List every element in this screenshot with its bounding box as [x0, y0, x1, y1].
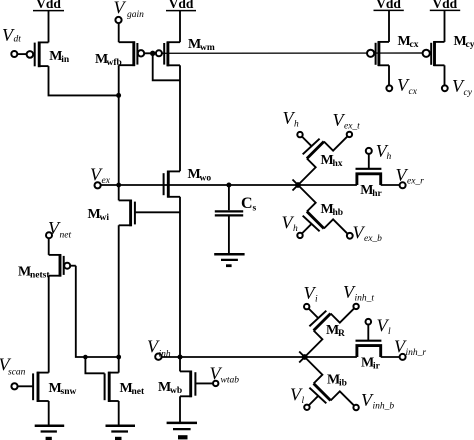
node V_wtab: [210, 363, 240, 386]
wire V_ex horizontal line: [101, 184, 357, 186]
node V_h top gate: [283, 108, 303, 137]
transistor M_wi: [88, 200, 181, 227]
node V_net: [46, 218, 71, 241]
svg-text:h: h: [294, 120, 299, 130]
wire V_gain to M_wfb source: [118, 23, 120, 42]
svg-text:Vdd: Vdd: [376, 0, 401, 11]
node V_inh_r: [394, 337, 426, 360]
svg-text:cx: cx: [409, 87, 418, 97]
wire M_wfb drain down to V_ex node: [118, 65, 120, 200]
node V_cx: [386, 65, 417, 97]
node net junction dot 2: [116, 355, 121, 360]
node V_dt: [2, 25, 21, 57]
svg-text:snw: snw: [61, 387, 77, 397]
transistor M_cy: [423, 34, 474, 66]
wire M_wm drain down to M_wo: [179, 65, 181, 171]
svg-text:inh_r: inh_r: [406, 348, 427, 358]
svg-text:h: h: [387, 152, 392, 162]
svg-text:wm: wm: [200, 43, 215, 53]
node V_inh_b: [353, 390, 394, 412]
svg-text:cx: cx: [410, 40, 419, 50]
transistor M_wfb: [95, 41, 153, 68]
capacitor C_s: [215, 183, 257, 254]
wire M_snw source to ground: [48, 401, 50, 426]
svg-text:net: net: [132, 387, 146, 397]
svg-text:ir: ir: [373, 361, 381, 371]
wire Vdd2 to M_wm source: [179, 11, 181, 43]
ground under M_snw: [35, 426, 64, 440]
transistor M_wm: [156, 37, 215, 67]
node V_ex_t: [333, 110, 361, 137]
transistor M_ib diagonal bottom: [299, 352, 354, 406]
wire long gate line to current mirrors: [153, 52, 424, 54]
transistor M_netst: [18, 254, 76, 280]
transistor M_R diagonal top: [299, 308, 354, 362]
node net junction dot 1: [83, 355, 88, 360]
svg-text:cy: cy: [466, 40, 474, 50]
svg-text:i: i: [315, 294, 318, 304]
svg-text:hb: hb: [333, 208, 344, 218]
svg-text:h: h: [293, 224, 298, 234]
node V_scan: [0, 354, 26, 389]
svg-text:cy: cy: [464, 88, 473, 98]
svg-text:in: in: [61, 55, 70, 65]
node junction V_inh / M_wo source: [178, 355, 183, 360]
transistor M_net: [105, 372, 145, 402]
Vdd rail 1: [33, 0, 64, 11]
svg-text:scan: scan: [8, 367, 26, 377]
node V_inh_t: [343, 282, 374, 309]
wire Vdd4 to M_cy source: [444, 10, 446, 42]
transistor M_hr right: [356, 148, 400, 199]
wire Vdd1 to M_in source: [48, 11, 50, 43]
svg-text:Vdd: Vdd: [36, 0, 61, 11]
svg-text:ex_r: ex_r: [407, 177, 424, 187]
svg-text:hr: hr: [372, 189, 382, 199]
svg-text:Vdd: Vdd: [169, 0, 194, 11]
svg-text:ex_t: ex_t: [344, 122, 360, 132]
svg-text:s: s: [253, 204, 257, 214]
node V_ex_b: [347, 223, 382, 245]
ground under M_net: [106, 426, 136, 440]
transistor M_ir right: [356, 319, 400, 371]
svg-text:l: l: [388, 327, 391, 337]
Vdd rail 2: [166, 0, 196, 11]
node junction M_in/M_wfb drains: [116, 93, 121, 98]
transistor M_hb diagonal bottom: [293, 180, 348, 234]
wire Vdd3 to M_cx source: [388, 10, 390, 42]
wire M_wb source to ground: [179, 396, 181, 422]
ground under M_wb: [167, 423, 197, 440]
wire M_wm gate-drain tie: [153, 53, 180, 80]
svg-text:wtab: wtab: [221, 375, 240, 385]
svg-text:wb: wb: [170, 386, 182, 396]
svg-text:Vdd: Vdd: [432, 0, 457, 11]
transistor M_wo: [164, 167, 212, 197]
svg-text:wi: wi: [100, 213, 110, 223]
svg-text:inh_t: inh_t: [355, 293, 375, 303]
transistor M_hx diagonal top: [293, 136, 348, 190]
node V_ex: [90, 165, 111, 189]
node junction V_ex / M_wfb drain: [116, 183, 121, 188]
Vdd rail 3: [374, 0, 404, 11]
node V_h bottom gate: [282, 213, 303, 238]
wire M_wi drain down to net node: [118, 225, 120, 372]
svg-text:net: net: [60, 230, 72, 240]
svg-text:wo: wo: [200, 173, 212, 183]
transistor M_in: [17, 42, 70, 68]
node V_inh: [147, 336, 171, 360]
wire V_net to M_netst: [48, 238, 50, 255]
svg-text:netst: netst: [30, 271, 50, 281]
transistor M_cx: [367, 34, 419, 66]
Vdd rail 4: [430, 0, 460, 11]
node V_cy: [442, 65, 473, 98]
node gate junction dot: [150, 51, 155, 56]
svg-text:C: C: [241, 195, 253, 212]
svg-text:hx: hx: [333, 159, 343, 169]
wire V_inh horizontal line: [162, 356, 357, 358]
wire M_net source to ground: [118, 401, 120, 426]
svg-text:R: R: [338, 329, 345, 339]
wire M_netst source down to M_snw drain: [48, 276, 50, 373]
svg-text:inh_b: inh_b: [373, 401, 395, 411]
svg-text:gain: gain: [127, 10, 144, 20]
svg-text:dt: dt: [14, 35, 22, 45]
ground under C_s: [214, 254, 244, 267]
node V_l bottom gate: [290, 384, 310, 410]
transistor M_wb: [158, 357, 213, 397]
wire M_in drain down and across to node: [49, 66, 118, 95]
node star junction J2: [302, 354, 308, 360]
wire M_wo source down to V_inh node: [179, 197, 181, 357]
wire M_netst gate down to net node: [76, 266, 119, 357]
node V_ex_r: [396, 165, 425, 188]
wire net node to M_net gate: [85, 357, 104, 373]
node V_gain: [114, 0, 145, 23]
transistor M_snw: [18, 372, 77, 402]
svg-text:l: l: [302, 396, 305, 406]
svg-text:ex_b: ex_b: [364, 234, 382, 244]
node star junction J1: [295, 182, 301, 188]
node V_i top gate: [304, 283, 319, 309]
svg-text:ib: ib: [339, 378, 347, 388]
